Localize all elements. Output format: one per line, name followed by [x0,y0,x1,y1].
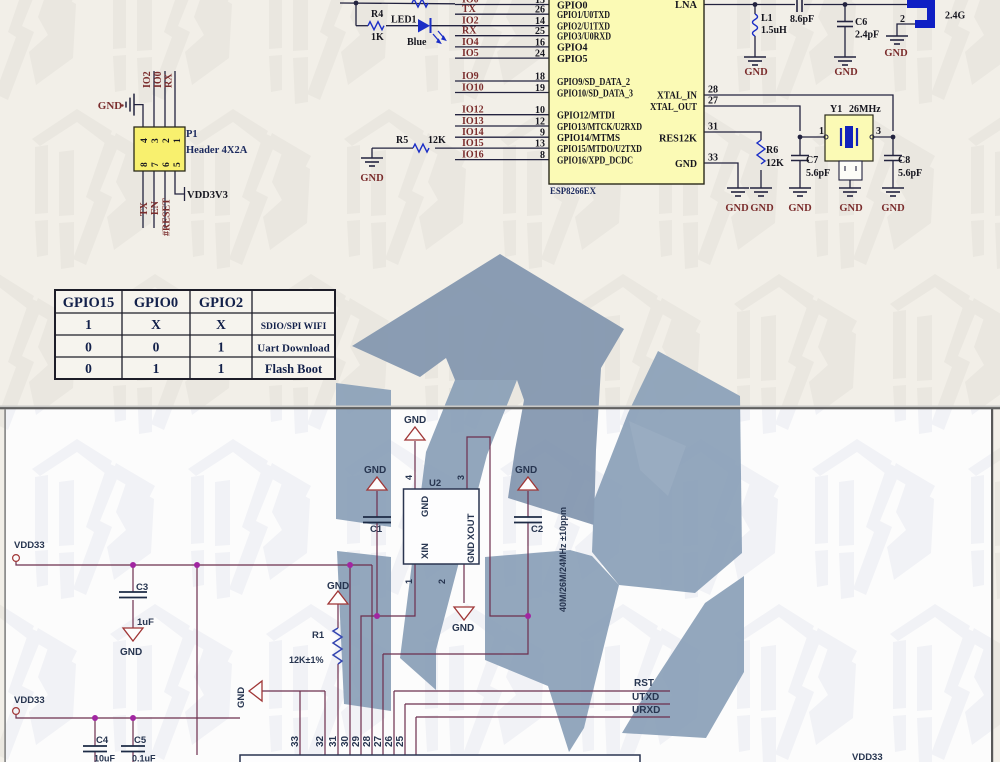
svg-text:1uF: 1uF [137,617,154,628]
svg-text:30: 30 [340,735,351,747]
svg-text:XOUT: XOUT [466,513,477,540]
svg-text:X: X [216,317,226,332]
svg-text:GPIO16/XPD_DCDC: GPIO16/XPD_DCDC [557,155,633,166]
svg-text:3: 3 [876,126,881,137]
svg-text:VDD33: VDD33 [14,695,45,706]
svg-text:GND: GND [788,203,812,214]
svg-text:GPIO3/U0RXD: GPIO3/U0RXD [557,32,611,43]
svg-text:28: 28 [708,85,718,96]
svg-text:P1: P1 [186,129,198,140]
svg-text:12K±1%: 12K±1% [289,655,323,665]
svg-text:GPIO14/MTMS: GPIO14/MTMS [557,133,620,144]
svg-text:7: 7 [151,162,161,167]
svg-text:18: 18 [535,72,545,83]
svg-text:24: 24 [535,49,545,60]
svg-text:1: 1 [819,126,824,137]
svg-text:C6: C6 [855,17,867,28]
svg-text:IO2: IO2 [142,71,153,88]
svg-text:GND: GND [675,159,697,170]
svg-text:1.5uH: 1.5uH [761,25,787,36]
svg-text:GND: GND [744,67,768,78]
svg-text:4: 4 [404,475,414,480]
svg-text:C7: C7 [806,155,818,166]
svg-text:L1: L1 [761,13,773,24]
svg-text:GPIO4: GPIO4 [557,43,588,54]
svg-text:GND: GND [839,203,863,214]
svg-text:C8: C8 [898,155,910,166]
svg-text:GND: GND [120,647,142,658]
svg-text:GND: GND [236,687,247,708]
svg-text:5: 5 [173,162,183,167]
svg-text:U2: U2 [429,478,441,489]
svg-text:GPIO1/U0TXD: GPIO1/U0TXD [557,10,610,21]
svg-text:25: 25 [535,26,545,37]
svg-text:0: 0 [85,340,92,355]
svg-text:10uF: 10uF [94,754,116,762]
svg-text:IO4: IO4 [462,37,479,48]
svg-text:TX: TX [462,4,477,15]
svg-text:IO16: IO16 [462,150,484,161]
svg-text:SDIO/SPI WIFI: SDIO/SPI WIFI [261,322,327,332]
svg-text:C4: C4 [96,735,109,746]
svg-text:LNA: LNA [675,0,698,11]
svg-text:Y1: Y1 [830,104,842,115]
svg-text:3: 3 [456,475,466,480]
svg-text:GND: GND [515,465,537,476]
svg-text:12K: 12K [428,135,446,146]
svg-text:GPIO13/MTCK/U2RXD: GPIO13/MTCK/U2RXD [557,122,642,133]
svg-text:GPIO9/SD_DATA_2: GPIO9/SD_DATA_2 [557,77,630,88]
svg-text:5.6pF: 5.6pF [806,168,830,179]
svg-text:26MHz: 26MHz [849,104,881,115]
svg-text:GPIO5: GPIO5 [557,54,588,65]
svg-text:IO9: IO9 [462,71,479,82]
svg-text:TX: TX [139,201,150,216]
svg-text:Uart Download: Uart Download [257,343,329,355]
svg-text:IO10: IO10 [462,83,484,94]
svg-text:IO12: IO12 [462,105,484,116]
svg-text:33: 33 [708,153,718,164]
svg-text:31: 31 [708,122,718,133]
svg-text:IO13: IO13 [462,116,484,127]
svg-text:9: 9 [540,128,545,139]
svg-text:8.6pF: 8.6pF [790,14,814,25]
svg-text:27: 27 [373,735,384,747]
svg-text:26: 26 [384,735,395,747]
svg-text:GND: GND [98,100,123,112]
svg-text:27: 27 [708,96,718,107]
svg-text:Blue: Blue [407,37,427,48]
svg-text:2.4pF: 2.4pF [855,30,879,41]
svg-text:VDD33: VDD33 [852,752,883,762]
svg-text:R1: R1 [312,630,325,641]
svg-text:LED1: LED1 [391,15,417,26]
svg-text:10: 10 [535,105,545,116]
svg-text:GND: GND [725,203,749,214]
svg-text:C5: C5 [134,735,147,746]
svg-text:25: 25 [395,735,406,747]
svg-text:0.1uF: 0.1uF [132,754,156,762]
svg-text:RST: RST [634,678,654,689]
svg-text:GPIO0: GPIO0 [134,295,178,311]
svg-text:VDD33: VDD33 [14,540,45,551]
svg-text:8: 8 [140,162,150,167]
svg-text:EN: EN [150,200,161,215]
svg-text:1: 1 [218,361,225,376]
svg-text:GPIO12/MTDI: GPIO12/MTDI [557,111,615,122]
svg-text:1: 1 [153,361,160,376]
svg-text:VDD3V3: VDD3V3 [187,190,228,201]
svg-text:33: 33 [290,735,301,747]
svg-text:1K: 1K [371,32,384,43]
svg-text:XTAL_IN: XTAL_IN [657,91,698,102]
svg-text:UTXD: UTXD [632,692,659,703]
svg-text:GND: GND [466,542,477,563]
svg-text:16: 16 [535,37,545,48]
svg-text:0: 0 [85,361,92,376]
svg-text:RX: RX [462,26,477,37]
svg-text:1: 1 [218,340,225,355]
svg-text:C3: C3 [136,582,148,593]
svg-text:IO15: IO15 [462,138,484,149]
svg-text:C1: C1 [370,524,383,535]
svg-text:1: 1 [404,579,414,584]
svg-text:GND: GND [364,465,386,476]
svg-text:GND: GND [884,48,908,59]
svg-text:4: 4 [140,138,150,143]
svg-text:32: 32 [315,735,326,747]
svg-text:IO5: IO5 [462,48,479,59]
svg-text:RES12K: RES12K [659,134,697,145]
svg-text:XTAL_OUT: XTAL_OUT [650,102,697,113]
svg-text:R5: R5 [396,135,408,146]
svg-text:Flash Boot: Flash Boot [265,362,323,376]
svg-text:R4: R4 [371,9,383,20]
svg-text:#RESET: #RESET [162,198,173,236]
svg-text:28: 28 [362,735,373,747]
svg-text:6: 6 [162,162,172,167]
svg-text:40M/26M/24MHz ±10ppm: 40M/26M/24MHz ±10ppm [558,507,568,612]
svg-text:GPIO10/SD_DATA_3: GPIO10/SD_DATA_3 [557,88,633,99]
svg-text:GPIO15/MTDO/U2TXD: GPIO15/MTDO/U2TXD [557,144,642,155]
svg-text:GND: GND [327,581,349,592]
svg-text:19: 19 [535,83,545,94]
svg-text:12: 12 [535,117,545,128]
svg-text:R6: R6 [766,145,778,156]
svg-text:ESP8266EX: ESP8266EX [550,187,596,197]
svg-text:URXD: URXD [632,705,660,716]
svg-text:31: 31 [328,735,339,747]
svg-text:GND: GND [750,203,774,214]
svg-text:26: 26 [535,5,545,16]
svg-text:5.6pF: 5.6pF [898,168,922,179]
svg-text:1: 1 [173,138,183,143]
svg-text:RX: RX [164,73,175,88]
svg-text:12K: 12K [766,158,784,169]
svg-text:GND: GND [360,173,384,184]
svg-text:2: 2 [162,138,172,143]
svg-text:C2: C2 [531,524,543,535]
svg-text:13: 13 [535,139,545,150]
svg-text:0: 0 [153,340,160,355]
svg-text:1: 1 [85,317,92,332]
svg-text:2: 2 [900,14,905,25]
svg-text:IO14: IO14 [462,127,484,138]
svg-text:GPIO2: GPIO2 [199,295,243,311]
svg-text:GND: GND [452,623,474,634]
svg-text:GND: GND [834,67,858,78]
svg-text:29: 29 [351,735,362,747]
svg-text:2: 2 [437,579,447,584]
svg-text:GND: GND [404,415,426,426]
svg-text:X: X [151,317,161,332]
svg-text:3: 3 [151,138,161,143]
svg-text:XIN: XIN [420,543,431,559]
svg-text:IO0: IO0 [153,71,164,88]
svg-text:GPIO15: GPIO15 [63,295,115,311]
svg-text:GND: GND [420,496,431,517]
svg-text:2.4G: 2.4G [945,11,966,22]
svg-text:8: 8 [540,150,545,161]
svg-text:GND: GND [881,203,905,214]
svg-text:Header 4X2A: Header 4X2A [186,145,248,156]
